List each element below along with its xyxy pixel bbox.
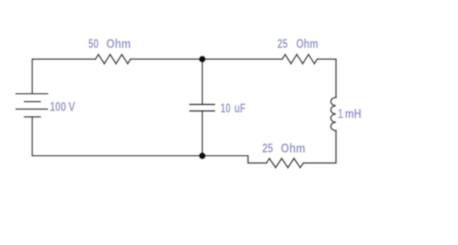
svg-text:V: V <box>68 99 75 114</box>
battery V1 plate long bottom <box>16 108 47 110</box>
battery V1 plate short <box>25 101 41 103</box>
svg-text:Ohm: Ohm <box>281 140 306 155</box>
svg-text:25: 25 <box>262 140 273 155</box>
svg-text:Ohm: Ohm <box>106 36 131 51</box>
wire right-bottom corner <box>304 131 337 163</box>
resistor R1 50 Ohm <box>96 55 131 64</box>
capacitor C1 plate bottom <box>190 110 214 112</box>
svg-text:1: 1 <box>337 106 344 121</box>
svg-text:uF: uF <box>234 101 245 116</box>
svg-text:10: 10 <box>220 101 230 116</box>
node junction bottom <box>199 152 206 159</box>
svg-text:25: 25 <box>277 36 287 51</box>
wire bottom step <box>202 156 266 163</box>
wire top-middle <box>131 58 283 60</box>
battery V1 plate short bottom <box>25 116 41 118</box>
node junction top <box>199 56 206 63</box>
inductor L1 1 mH <box>331 97 336 130</box>
svg-text:50: 50 <box>88 36 98 51</box>
svg-text:Ohm: Ohm <box>296 36 318 51</box>
capacitor C1 plate top <box>190 103 214 105</box>
svg-text:mH: mH <box>345 106 362 121</box>
svg-text:100: 100 <box>50 99 66 114</box>
battery V1 plate long top <box>16 93 47 95</box>
wire capacitor top <box>201 59 203 104</box>
wire bottom-left <box>32 117 202 156</box>
resistor R3 25 Ohm bottom <box>266 158 303 167</box>
wire top-left horizontal <box>32 59 95 94</box>
wire capacitor bottom <box>201 111 203 156</box>
resistor R2 25 Ohm top <box>282 55 317 64</box>
wire top-right corner <box>317 59 336 97</box>
